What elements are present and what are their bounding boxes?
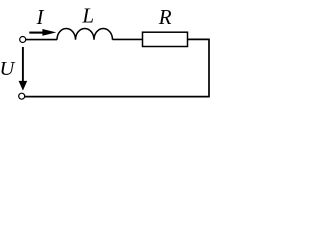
svg-text:R: R xyxy=(158,5,172,29)
svg-text:U: U xyxy=(0,58,16,80)
svg-text:I: I xyxy=(36,5,45,29)
svg-text:L: L xyxy=(81,3,94,27)
